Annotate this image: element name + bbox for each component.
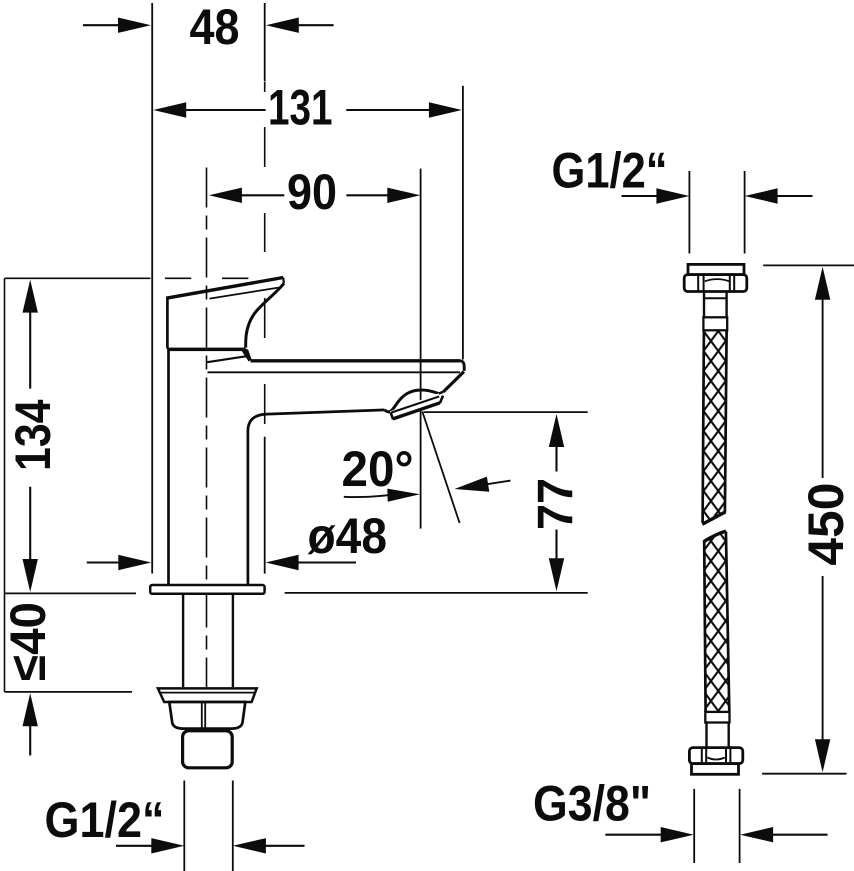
dim 48: left extension line x=152	[151, 3, 153, 574]
faucet handle: right curved edge	[246, 283, 284, 347]
base flange	[150, 585, 264, 594]
aerator cap right end	[440, 396, 443, 403]
dim max40: lower arrow pointing up	[23, 693, 38, 726]
dim 77: top arrow	[549, 414, 564, 447]
dim G1/2 top: right extension line	[744, 171, 746, 254]
washer plate	[158, 688, 257, 702]
svg-text:134: 134	[5, 399, 61, 471]
dim 77: top reference line (outlet level)	[424, 411, 588, 413]
dim 450: bottom arrow	[822, 576, 824, 742]
dim 77: bottom arrow	[555, 530, 557, 561]
dim G1/2 top: left extension line	[688, 171, 690, 254]
hose top nut facets	[697, 276, 699, 291]
svg-text:G3/8": G3/8"	[533, 776, 651, 832]
body left edge	[167, 351, 170, 585]
dim G1/2 bottom: left arrow	[116, 845, 152, 847]
dim 450: top arrow	[815, 267, 830, 300]
hose bottom nut face arc	[707, 758, 724, 760]
dim 131: right arrow	[346, 109, 430, 111]
water jet direction line 20deg	[422, 412, 459, 524]
aerator-chamfer bridge	[439, 392, 443, 394]
hose bottom nut facets	[701, 749, 703, 763]
faucet centre line (dash-dot)	[206, 168, 208, 689]
handle-body junction bar (thick)	[167, 348, 245, 352]
dim 90: right arrow	[346, 194, 388, 196]
left vertical reference edge	[4, 278, 6, 692]
svg-text:450: 450	[798, 483, 854, 566]
faucet handle: tip end	[282, 278, 285, 284]
aerator cap bottom edge	[393, 403, 440, 419]
dim 48: right extension line x=264.7 (solid top)	[264, 3, 266, 81]
spout tip chamfer	[443, 372, 464, 392]
hose top nut	[684, 275, 747, 292]
hose top flange	[688, 264, 744, 274]
svg-text:ø48: ø48	[308, 508, 388, 564]
aerator cap inner line	[392, 396, 440, 412]
dim 48: right extension line solid lower part (odd 48 ext)	[264, 437, 266, 574]
dim G1/2 bottom: left extension / pipe line	[183, 781, 185, 871]
hose bottom nut	[689, 748, 742, 764]
washer inner line	[160, 692, 255, 694]
hose neck crossbar	[703, 297, 727, 299]
svg-text:G1/2“: G1/2“	[552, 142, 668, 198]
dim 90: right extension line x=420.6 through spout	[420, 169, 422, 529]
hose upper break cut	[702, 512, 725, 525]
spout top deck (thick)	[251, 359, 460, 362]
threaded shank right	[232, 594, 234, 688]
dim 134: bottom arrow	[29, 487, 31, 561]
hose top nut face arc	[705, 279, 729, 281]
top reference line y=278 (handle top level)	[5, 277, 151, 279]
spout tip corner	[456, 361, 464, 371]
dim 20deg: right arrow	[454, 477, 489, 492]
dim 48: right extension line dashed middle part	[264, 82, 266, 93]
dim 131: left arrow	[153, 102, 186, 117]
aerator cap body (white fill)	[390, 393, 443, 420]
dim G3/8: right arrow	[740, 827, 773, 842]
dim G3/8: left arrow	[605, 834, 662, 836]
lock nut facet lines	[201, 702, 203, 728]
hose lower braid outline right	[726, 531, 729, 712]
hose lower ferrule	[705, 712, 729, 723]
dim dia48: right arrow	[266, 555, 299, 570]
hose lower neck	[705, 723, 707, 749]
dim 450: bottom reference line	[762, 773, 846, 775]
dim dia48: left arrow	[87, 561, 120, 563]
aerator cap left end	[391, 412, 394, 419]
body right edge and spout underside	[248, 410, 385, 585]
aerator bulge curve (spout bottom)	[385, 390, 439, 412]
dim G1/2 top: left arrow	[622, 195, 658, 197]
hose lower braid (pattern)	[704, 531, 729, 712]
dim 131: right extension line x=463	[462, 86, 464, 360]
hose upper braid outline right	[725, 331, 727, 512]
dim G1/2 bottom: right arrow	[233, 838, 266, 853]
hose upper braid outline left	[703, 331, 704, 523]
base plane reference line right segment (shared with dim 77)	[285, 592, 588, 594]
faucet handle: inner crease line	[210, 288, 279, 299]
dim G3/8: left extension line	[693, 789, 695, 863]
mounting thickness reference line y=692	[5, 691, 133, 693]
svg-text:20°: 20°	[342, 441, 414, 497]
dim 134: top arrow	[23, 280, 38, 313]
hose lower braid outline left	[704, 541, 705, 712]
faucet handle: top edge	[166, 278, 283, 299]
hose crimp band	[703, 317, 727, 330]
supply connector block	[183, 731, 233, 768]
dim 20deg: left curved arrow	[344, 495, 388, 497]
dim G1/2 bottom: right extension / pipe line	[232, 781, 234, 871]
threaded shank left	[182, 594, 184, 688]
dim 48: left arrow	[83, 24, 120, 26]
base plane reference line left segment	[5, 592, 137, 594]
hose upper braid (pattern)	[703, 331, 727, 523]
hose lower break cut	[704, 531, 726, 541]
dim G3/8: right extension line	[739, 789, 741, 863]
svg-text:90: 90	[287, 164, 337, 220]
junction wedge	[242, 348, 252, 362]
body top slant line under handle	[207, 356, 246, 362]
svg-text:G1/2“: G1/2“	[45, 792, 165, 848]
svg-text:77: 77	[527, 478, 583, 530]
spout inner top line	[208, 371, 461, 373]
lock nut	[169, 702, 245, 729]
svg-text:48: 48	[190, 0, 240, 55]
faucet handle: left edge	[166, 298, 169, 349]
svg-text:≤40: ≤40	[0, 602, 56, 681]
dim 90: left arrow (tip on centre axis)	[209, 188, 242, 203]
svg-text:131: 131	[268, 80, 333, 136]
dim G1/2 top: right arrow	[745, 188, 778, 203]
hose bottom flange	[692, 764, 739, 775]
hose neck below top nut	[703, 292, 705, 319]
dim 48: right arrow	[298, 24, 334, 26]
dim 450: top reference line	[763, 264, 854, 266]
